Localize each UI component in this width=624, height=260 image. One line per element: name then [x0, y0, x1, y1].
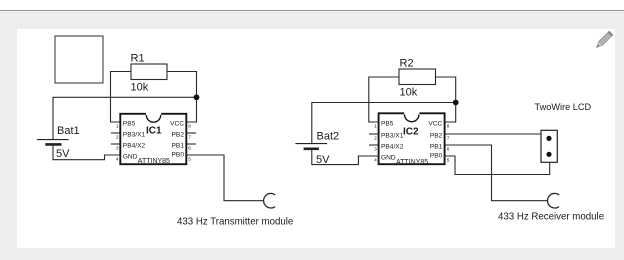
svg-text:PB3/X1: PB3/X1	[123, 132, 146, 139]
svg-text:8: 8	[188, 124, 191, 130]
svg-text:5: 5	[188, 156, 191, 162]
svg-text:R1: R1	[131, 53, 145, 65]
pin stub IC1 PB1	[187, 143, 196, 145]
svg-text:PB4/X2: PB4/X2	[123, 143, 146, 150]
svg-text:5V: 5V	[316, 154, 330, 166]
wire R1 left to IC1 PB5	[111, 72, 132, 123]
svg-text:PB1: PB1	[172, 143, 185, 150]
IC2 body	[379, 112, 445, 164]
pencil edit icon	[594, 31, 613, 50]
svg-text:1: 1	[374, 124, 377, 130]
svg-text:PB2: PB2	[430, 133, 443, 140]
svg-text:R2: R2	[400, 58, 414, 70]
antenna RX module symbol	[548, 193, 560, 208]
antenna TX module symbol	[264, 193, 276, 208]
svg-text:5: 5	[447, 157, 450, 163]
blank square symbol	[55, 36, 103, 83]
svg-text:PB5: PB5	[381, 121, 394, 128]
wire R1 right to IC1 VCC	[167, 72, 197, 123]
svg-text:4: 4	[116, 156, 119, 162]
svg-text:PB5: PB5	[123, 121, 136, 128]
node junction J1	[194, 94, 200, 100]
wire R2 left to IC2 PB5	[369, 77, 399, 122]
pin stub IC2 PB4	[369, 144, 378, 146]
node junction J2	[453, 100, 459, 106]
svg-text:10k: 10k	[131, 82, 149, 94]
pin stub IC1 PB2	[187, 132, 196, 134]
svg-text:8: 8	[447, 124, 450, 130]
svg-text:433 Hz Receiver module: 433 Hz Receiver module	[498, 212, 604, 223]
pin stub IC2 PB3	[369, 133, 378, 135]
svg-text:IC2: IC2	[403, 127, 419, 138]
resistor R1	[131, 64, 167, 80]
svg-text:IC1: IC1	[146, 126, 162, 137]
wire Bat1 minus to IC1 GND	[53, 144, 120, 159]
svg-text:2: 2	[374, 136, 377, 142]
svg-text:1: 1	[116, 124, 119, 130]
wire Bat2 minus to IC2 GND	[312, 149, 378, 165]
pin stub IC1 PB3	[111, 132, 120, 134]
wire IC2 PB2 to LCD pin1	[446, 133, 542, 135]
connector TwoWire LCD	[541, 130, 557, 162]
svg-text:GND: GND	[123, 153, 138, 160]
wire IC2 PB0 to LCD pin2	[446, 156, 550, 175]
svg-text:VCC: VCC	[428, 121, 442, 128]
svg-text:2: 2	[116, 135, 119, 141]
svg-text:PB0: PB0	[172, 152, 185, 159]
wire R2 right to IC2 VCC	[436, 77, 456, 122]
svg-text:TwoWire LCD: TwoWire LCD	[535, 102, 592, 112]
svg-text:PB4/X2: PB4/X2	[381, 144, 404, 151]
svg-text:ATTINY85: ATTINY85	[396, 159, 428, 166]
svg-text:PB2: PB2	[172, 132, 185, 139]
battery Bat2	[295, 144, 327, 149]
svg-text:7: 7	[447, 136, 450, 142]
wire Bat1 plus rail	[53, 97, 197, 139]
svg-text:4: 4	[374, 157, 377, 163]
pin stub IC1 PB4	[111, 143, 120, 145]
svg-text:Bat2: Bat2	[317, 131, 340, 143]
resistor R2	[399, 69, 436, 85]
svg-text:VCC: VCC	[170, 121, 184, 128]
wire Bat2 plus rail	[312, 103, 456, 144]
svg-text:Bat1: Bat1	[57, 125, 80, 137]
caption TwoWire LCD	[535, 102, 592, 112]
svg-text:6: 6	[447, 147, 450, 153]
battery Bat1	[37, 140, 69, 145]
svg-text:3: 3	[374, 147, 377, 153]
svg-text:PB0: PB0	[430, 153, 443, 160]
svg-text:ATTINY85: ATTINY85	[138, 158, 170, 165]
svg-text:3: 3	[116, 146, 119, 152]
svg-text:10k: 10k	[400, 87, 418, 99]
IC1 body	[120, 112, 186, 164]
svg-text:PB1: PB1	[430, 144, 443, 151]
svg-text:6: 6	[188, 146, 191, 152]
svg-text:433 Hz Transmitter module: 433 Hz Transmitter module	[177, 217, 293, 228]
svg-text:7: 7	[188, 135, 191, 141]
wire IC2 PB1 to RX module	[446, 145, 548, 201]
wire IC1 PB0 to TX module	[187, 155, 264, 201]
svg-text:GND: GND	[381, 154, 396, 161]
svg-text:PB3/X1: PB3/X1	[381, 133, 404, 140]
svg-text:5V: 5V	[56, 148, 70, 160]
